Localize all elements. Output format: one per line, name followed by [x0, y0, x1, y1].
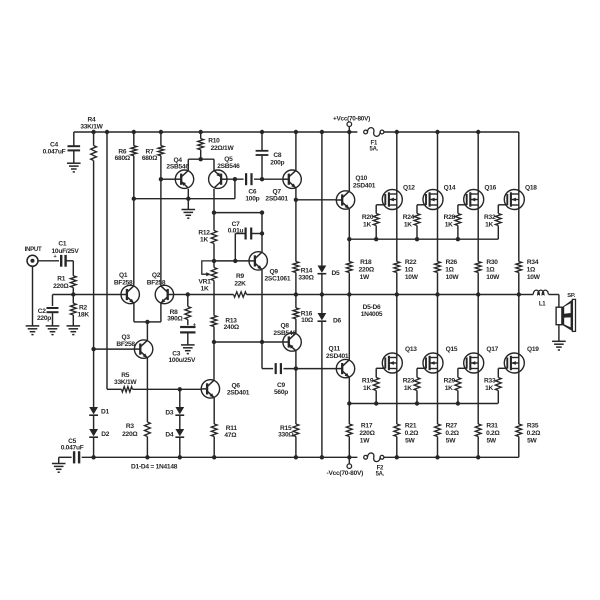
- fuse F1: [364, 128, 384, 137]
- label C1: [52, 241, 80, 255]
- svg-text:5W: 5W: [487, 438, 497, 445]
- label R9: [234, 273, 246, 287]
- svg-text:680Ω: 680Ω: [115, 155, 131, 162]
- label R35: [527, 422, 541, 444]
- transistor Q9: [249, 252, 267, 270]
- label R13: [224, 317, 240, 331]
- svg-text:R32: R32: [484, 214, 496, 221]
- ground Q4 emitter node: [182, 210, 196, 219]
- label Q9: [265, 269, 291, 283]
- label R31: [486, 422, 500, 444]
- label C7: [228, 221, 244, 234]
- label C2: [37, 308, 51, 322]
- label R27: [445, 422, 459, 444]
- wire Q18 source: [518, 205, 520, 262]
- wire R7 to Q4 base node: [160, 156, 162, 180]
- transistor Q6: [201, 380, 219, 398]
- label R24: [403, 214, 415, 228]
- capacitor C9: [276, 363, 281, 374]
- wire R12 node to C-column: [214, 212, 262, 214]
- svg-text:BF258: BF258: [114, 279, 133, 286]
- svg-text:Q19: Q19: [527, 346, 539, 353]
- wire Q1 collector to Q5 base: [134, 179, 235, 199]
- svg-text:C6: C6: [248, 189, 257, 196]
- svg-text:1K: 1K: [363, 385, 371, 392]
- diode D1: [89, 407, 98, 415]
- svg-text:R10: R10: [208, 137, 220, 144]
- resistor R26: [435, 262, 441, 295]
- wire Q1 base: [73, 294, 121, 296]
- node +Vcc terminal: [347, 122, 352, 132]
- resistor R6: [131, 132, 137, 156]
- svg-text:F2: F2: [377, 465, 384, 471]
- junction dot D3 node: [178, 387, 182, 391]
- label R7: [142, 148, 158, 162]
- resistor R10: [198, 132, 204, 159]
- wire Q3 base: [94, 348, 135, 350]
- label Q4: [166, 157, 189, 171]
- junction dots upper gate bus: [347, 237, 460, 241]
- label Q13: [405, 346, 417, 353]
- transistor Q7: [283, 170, 301, 188]
- svg-text:18K: 18K: [78, 311, 90, 318]
- svg-text:R33: R33: [484, 378, 496, 385]
- svg-text:R3: R3: [126, 423, 135, 430]
- wire Q8 emitter down: [295, 351, 297, 424]
- svg-text:1K: 1K: [445, 221, 453, 228]
- node -Vcc terminal: [347, 457, 352, 468]
- svg-text:+Vcc(70-80V): +Vcc(70-80V): [333, 115, 370, 122]
- label Q10: [353, 175, 376, 189]
- mosfet Q16: [464, 190, 484, 210]
- junction dots top rail: [91, 130, 480, 134]
- svg-text:330Ω: 330Ω: [298, 274, 314, 281]
- svg-text:220Ω: 220Ω: [359, 430, 375, 437]
- svg-text:10uF/25V: 10uF/25V: [52, 248, 80, 255]
- wire tail to Q3 collector: [146, 322, 148, 340]
- fuse F2: [364, 453, 384, 462]
- junction dots Q1 collector node: [132, 197, 191, 201]
- label C3: [169, 350, 196, 364]
- label C5: [61, 438, 84, 452]
- label R17: [359, 422, 375, 444]
- svg-text:33K/1W: 33K/1W: [114, 379, 137, 386]
- svg-text:Q10: Q10: [355, 175, 367, 182]
- wire C4 to ground: [73, 150, 75, 163]
- svg-text:5A.: 5A.: [376, 471, 385, 477]
- resistor R7: [158, 132, 164, 156]
- svg-text:R31: R31: [486, 422, 498, 429]
- wire speaker to ground: [558, 325, 560, 342]
- svg-text:R9: R9: [236, 273, 245, 280]
- svg-text:+: +: [54, 254, 57, 260]
- label R32: [484, 214, 496, 228]
- svg-text:100u/25V: 100u/25V: [169, 357, 196, 364]
- svg-text:2SD401: 2SD401: [265, 195, 288, 202]
- resistor R35: [516, 424, 522, 457]
- label D2: [101, 431, 110, 438]
- label Q3: [116, 334, 135, 348]
- mosfet Q19: [504, 353, 524, 373]
- wire -Vcc bottom rail right segment: [384, 456, 519, 458]
- svg-text:1K: 1K: [445, 385, 453, 392]
- svg-text:2SB546: 2SB546: [273, 330, 296, 337]
- transistor Q3: [134, 340, 152, 358]
- wire Q13 gate lead: [376, 368, 385, 377]
- label R30: [486, 259, 500, 281]
- wire Q17 drain: [477, 295, 479, 358]
- resistor R20: [373, 214, 379, 240]
- wire VR1 to R13: [213, 281, 215, 316]
- svg-text:Q12: Q12: [403, 184, 415, 191]
- wire ground stub: [187, 199, 189, 210]
- capacitor C2: [47, 308, 59, 312]
- svg-text:R28: R28: [444, 214, 456, 221]
- resistor R9: [234, 292, 247, 297]
- svg-text:SP.: SP.: [567, 293, 575, 299]
- wire Q15 source: [437, 369, 439, 425]
- label R33: [484, 378, 496, 392]
- resistor R5: [107, 387, 201, 392]
- wire Q19 gate lead: [498, 368, 507, 377]
- wire Q12 gate lead: [376, 205, 385, 214]
- svg-text:C4: C4: [50, 141, 59, 148]
- junction dot Q3 base node: [91, 347, 95, 351]
- wire Q19 source: [518, 369, 520, 425]
- inductor L1: [519, 290, 559, 294]
- label L1: [539, 302, 546, 308]
- diode D6: [318, 313, 327, 321]
- wire C4 stub: [73, 132, 75, 146]
- wire Q1 emitter: [134, 303, 148, 322]
- svg-text:1Ω: 1Ω: [486, 267, 495, 274]
- svg-text:0.2Ω: 0.2Ω: [405, 430, 419, 437]
- svg-text:D1-D4 = 1N4148: D1-D4 = 1N4148: [131, 464, 178, 471]
- svg-text:10W: 10W: [405, 274, 419, 281]
- resistor R33: [495, 378, 501, 404]
- resistor R11: [211, 424, 217, 457]
- wire Q9 base: [214, 260, 249, 262]
- label F2: [376, 465, 385, 477]
- label R4: [80, 117, 103, 131]
- transistor Q4: [175, 170, 193, 188]
- svg-text:0.047uF: 0.047uF: [43, 149, 66, 156]
- wire upper gate bus: [349, 238, 498, 240]
- svg-text:R1: R1: [57, 276, 66, 283]
- wire Q7 emitter: [295, 188, 297, 200]
- transistor Q10: [336, 191, 354, 209]
- svg-text:R22: R22: [405, 259, 417, 266]
- resistor R3: [145, 422, 151, 457]
- svg-text:0.2Ω: 0.2Ω: [486, 430, 500, 437]
- capacitor C4: [68, 146, 81, 150]
- wire Q16 drain: [477, 132, 479, 194]
- wire Q4 emitter stub: [187, 189, 189, 199]
- ground C3: [181, 345, 195, 354]
- svg-text:C9: C9: [277, 382, 286, 389]
- label R8: [167, 309, 183, 323]
- wire Q4 Q5 collector bus: [188, 159, 214, 170]
- label INPUT: [25, 247, 42, 253]
- mosfet Q13: [382, 353, 402, 373]
- junction dot C7 right: [260, 231, 264, 235]
- resistor R16: [293, 295, 299, 334]
- wire Q14 drain: [437, 132, 439, 194]
- wire C6 to Q7 base: [254, 178, 283, 180]
- label R3: [122, 423, 138, 438]
- wire C3 to ground: [187, 332, 189, 345]
- wire D3-D4: [179, 415, 181, 429]
- resistor R21: [394, 424, 400, 457]
- transistor Q11: [336, 359, 354, 377]
- wire Q12 drain: [396, 132, 398, 194]
- junction dots Q8 base node: [212, 340, 264, 344]
- wire -Vcc bottom rail left segment: [82, 456, 358, 458]
- svg-text:47Ω: 47Ω: [224, 432, 237, 439]
- svg-text:560p: 560p: [274, 389, 288, 396]
- svg-text:D2: D2: [101, 431, 110, 438]
- svg-text:Q9: Q9: [270, 269, 279, 276]
- junction dot C9 node: [294, 366, 298, 370]
- svg-text:680Ω: 680Ω: [142, 155, 158, 162]
- svg-text:1K: 1K: [363, 221, 371, 228]
- svg-text:1K: 1K: [485, 221, 493, 228]
- svg-text:C8: C8: [273, 152, 282, 159]
- label R10: [208, 137, 234, 152]
- transistor Q2: [155, 285, 173, 303]
- label C4: [43, 141, 66, 155]
- svg-text:Q5: Q5: [224, 156, 233, 163]
- resistor R28: [455, 214, 461, 240]
- label R2: [78, 305, 90, 319]
- svg-text:R29: R29: [444, 378, 456, 385]
- wire Q9 emitter down: [262, 270, 273, 369]
- mosfet Q18: [504, 190, 524, 210]
- ground C5: [52, 464, 66, 473]
- wire Q3 emitter: [146, 358, 148, 422]
- label VR1: [198, 279, 211, 293]
- svg-text:Q15: Q15: [446, 346, 458, 353]
- svg-text:220p: 220p: [37, 315, 51, 322]
- label Q2: [147, 272, 166, 286]
- wire D6 to -rail: [321, 321, 323, 457]
- svg-text:2SC1061: 2SC1061: [265, 276, 291, 283]
- svg-text:Q18: Q18: [525, 184, 537, 191]
- svg-text:D3: D3: [165, 409, 174, 416]
- wire Q11 emitter to gate bus: [348, 377, 350, 403]
- wire Q2 base to R8 node: [174, 294, 188, 296]
- label Q14: [444, 184, 456, 191]
- svg-text:R27: R27: [446, 422, 458, 429]
- resistor R34: [516, 262, 522, 295]
- svg-text:1N4005: 1N4005: [361, 311, 383, 318]
- junction dot R10 bus: [199, 157, 203, 161]
- svg-text:22K: 22K: [234, 281, 246, 288]
- svg-text:1K: 1K: [200, 236, 208, 243]
- connector INPUT jack: [27, 255, 38, 266]
- wire Q14 source: [437, 205, 439, 262]
- wire C8 stub top: [261, 132, 263, 150]
- svg-text:2SD401: 2SD401: [326, 353, 349, 360]
- svg-text:Q8: Q8: [280, 323, 289, 330]
- svg-text:D4: D4: [165, 431, 174, 438]
- wire Q17 gate lead: [458, 368, 467, 377]
- svg-text:1K: 1K: [485, 385, 493, 392]
- label R14: [298, 267, 314, 281]
- wire C7 left leg: [235, 234, 245, 261]
- resistor R30: [475, 262, 481, 295]
- wire R6 to node: [133, 156, 135, 199]
- svg-text:D1: D1: [101, 409, 110, 416]
- label D1: [101, 409, 110, 416]
- wire D5 to bus: [321, 274, 323, 295]
- svg-text:330Ω: 330Ω: [278, 432, 294, 439]
- wire Q6 collector node to Q8 base: [214, 341, 283, 343]
- label R16: [301, 310, 314, 324]
- svg-text:+: +: [193, 323, 196, 329]
- svg-text:BF258: BF258: [116, 341, 135, 348]
- wire Q16 source: [477, 205, 479, 262]
- wire -rail left end: [59, 457, 72, 463]
- label D6: [333, 318, 342, 325]
- svg-text:1K: 1K: [404, 385, 412, 392]
- junction dot tail node: [145, 320, 149, 324]
- capacitor C7: [246, 228, 252, 240]
- label Q5: [217, 156, 240, 170]
- diode D5: [318, 266, 327, 274]
- capacitor C6: [246, 173, 251, 185]
- wire C8 to C6 node: [261, 156, 263, 180]
- label R28: [444, 214, 456, 228]
- svg-text:1W: 1W: [360, 438, 370, 445]
- wire jack to ground: [32, 266, 34, 326]
- label R23: [403, 378, 415, 392]
- label C6: [245, 189, 259, 203]
- resistor R1: [70, 276, 76, 295]
- svg-text:1Ω: 1Ω: [445, 267, 454, 274]
- svg-text:R20: R20: [362, 214, 374, 221]
- svg-text:R24: R24: [403, 214, 415, 221]
- junction dots Q5 collector node: [212, 210, 264, 214]
- label D3: [165, 409, 174, 416]
- label -Vcc: [327, 470, 364, 477]
- label Q8: [273, 323, 296, 337]
- svg-text:Q2: Q2: [152, 272, 161, 279]
- wire Q10 base: [296, 199, 336, 201]
- wire Q2 emitter: [147, 303, 161, 322]
- wire Q2 collector: [160, 179, 162, 286]
- resistor R22: [394, 262, 400, 295]
- wire D4 to -rail: [179, 437, 181, 457]
- wire lower gate bus: [349, 403, 498, 405]
- svg-text:Q1: Q1: [119, 272, 128, 279]
- ground C2: [46, 326, 60, 335]
- svg-text:200p: 200p: [270, 160, 284, 167]
- resistor R23: [414, 378, 420, 404]
- label +Vcc: [333, 115, 370, 122]
- svg-text:240Ω: 240Ω: [224, 324, 240, 331]
- mosfet Q12: [382, 190, 402, 210]
- wire Q4 base: [161, 178, 175, 180]
- wire Q10 collector: [348, 132, 350, 191]
- svg-text:D5: D5: [332, 270, 341, 277]
- svg-text:R12: R12: [198, 229, 210, 236]
- svg-text:L1: L1: [539, 302, 546, 308]
- resistor R8: [185, 295, 191, 326]
- svg-text:1W: 1W: [360, 274, 370, 281]
- resistor R27: [435, 424, 441, 457]
- label R11: [224, 425, 237, 439]
- label R18: [359, 259, 375, 281]
- svg-text:R17: R17: [361, 422, 373, 429]
- wire R5 node to D3: [179, 389, 181, 407]
- label D1-D4 type: [131, 464, 178, 471]
- wire jack to C1: [38, 260, 59, 262]
- svg-text:D6: D6: [333, 318, 342, 325]
- label Q16: [484, 184, 496, 191]
- resistor R13: [211, 316, 217, 343]
- wire Q12 source: [396, 205, 398, 262]
- svg-text:10W: 10W: [446, 274, 460, 281]
- junction dots Q9 base node: [212, 259, 238, 263]
- label R1: [53, 276, 69, 291]
- label Q7: [265, 188, 288, 202]
- wire Q6 collector: [213, 342, 215, 380]
- label R19: [362, 378, 374, 392]
- svg-text:R35: R35: [527, 422, 539, 429]
- svg-text:R26: R26: [446, 259, 458, 266]
- svg-text:220Ω: 220Ω: [122, 431, 138, 438]
- wire Q15 gate lead: [417, 368, 426, 377]
- label R15: [278, 425, 294, 439]
- wire Q18 drain: [518, 132, 520, 194]
- resistor R12: [211, 213, 217, 261]
- wire Q13 source: [396, 369, 398, 425]
- svg-text:10W: 10W: [527, 274, 541, 281]
- ground speaker: [552, 341, 566, 350]
- wire Q16 gate lead: [458, 205, 467, 214]
- svg-text:R34: R34: [527, 259, 539, 266]
- svg-text:R23: R23: [403, 378, 415, 385]
- mosfet Q14: [423, 190, 443, 210]
- svg-text:1K: 1K: [201, 285, 209, 292]
- wire Q19 drain: [518, 295, 520, 358]
- wire Q17 source: [477, 369, 479, 425]
- wire Q6 emitter: [213, 398, 215, 424]
- wire L1 to speaker: [558, 295, 560, 308]
- diode D3: [175, 407, 184, 415]
- resistor R29: [455, 378, 461, 404]
- label Q12: [403, 184, 415, 191]
- label R34: [527, 259, 541, 281]
- label R22: [405, 259, 419, 281]
- mosfet Q17: [464, 353, 484, 373]
- svg-text:Q14: Q14: [444, 184, 456, 191]
- svg-text:C2: C2: [38, 308, 47, 315]
- wire R5 feed column: [106, 132, 108, 389]
- resistor R17: [346, 404, 352, 458]
- wire Q14 gate lead: [417, 205, 426, 214]
- resistor R14: [293, 200, 299, 295]
- svg-text:2SD401: 2SD401: [227, 389, 250, 396]
- svg-text:10W: 10W: [486, 274, 500, 281]
- resistor R15: [293, 424, 299, 457]
- wire C9 to Q11 base: [284, 368, 337, 370]
- label Q17: [486, 346, 498, 353]
- wire D2 to -rail: [93, 437, 95, 457]
- svg-text:0.047uF: 0.047uF: [61, 445, 84, 452]
- junction dot Q10 base node: [294, 198, 298, 202]
